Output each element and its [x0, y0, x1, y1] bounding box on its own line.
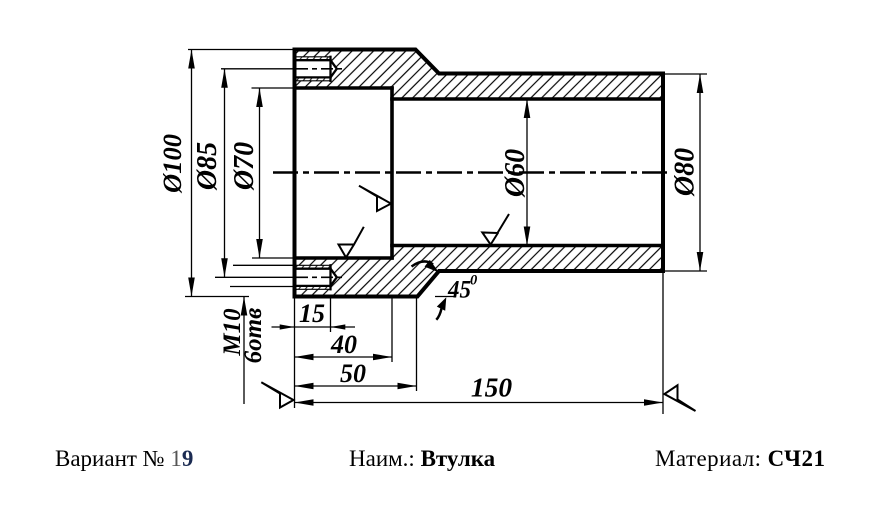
- top hole centerline: [296, 68, 345, 70]
- leader and label M10 6 holes: [219, 265, 295, 404]
- dimension O80: [665, 74, 707, 271]
- section hatch upper band of bushing: [295, 50, 664, 100]
- top M10 hole thread and drill lines: [295, 57, 337, 81]
- surface finish mark on O70 bore end wall: [359, 186, 391, 211]
- chamfer angle dimension 45 deg: [412, 260, 478, 320]
- dimension O100: [157, 50, 295, 297]
- bottom M10 hole thread and drill lines: [295, 265, 337, 289]
- dimension O85: [192, 69, 296, 277]
- section hatch lower band of bushing: [295, 246, 664, 297]
- svg-text:Ø80: Ø80: [670, 148, 701, 197]
- threaded hole M10 top: drill cavity: [295, 57, 337, 81]
- svg-text:6отв: 6отв: [240, 308, 267, 364]
- bottom hole centerline: [296, 276, 342, 278]
- svg-text:Ø70: Ø70: [229, 142, 260, 191]
- svg-text:Материал: СЧ21: Материал: СЧ21: [655, 446, 825, 471]
- surface finish mark at right end face: [664, 385, 695, 411]
- svg-text:150: 150: [471, 372, 513, 403]
- dimension O60: [500, 99, 531, 246]
- svg-text:Ø85: Ø85: [192, 142, 223, 191]
- svg-text:Вариант № 19: Вариант № 19: [55, 446, 193, 471]
- surface finish mark at left end face: [261, 382, 293, 407]
- svg-text:50: 50: [340, 359, 366, 388]
- surface finish mark on O60 bore surface: [482, 214, 509, 245]
- main axis centerline: [273, 171, 669, 174]
- svg-text:Ø60: Ø60: [500, 149, 531, 198]
- svg-text:15: 15: [299, 299, 325, 328]
- dimension 50: [295, 297, 417, 392]
- threaded hole M10 bottom: drill cavity: [295, 265, 337, 289]
- svg-text:Ø100: Ø100: [157, 134, 187, 194]
- dimension 150: [295, 271, 664, 414]
- dimension O70: [229, 88, 295, 258]
- bushing outer profile outline: [295, 50, 664, 297]
- dimension 15: [272, 297, 356, 332]
- dimension 40: [295, 297, 393, 362]
- svg-text:Наим.: Втулка: Наим.: Втулка: [349, 446, 496, 471]
- svg-text:0: 0: [470, 273, 477, 289]
- svg-text:40: 40: [330, 330, 357, 359]
- svg-text:45: 45: [447, 277, 471, 304]
- bore outline (O70 counterbore and O60 through bore): [295, 88, 664, 258]
- surface finish mark on O70 bore bottom surface: [339, 227, 364, 258]
